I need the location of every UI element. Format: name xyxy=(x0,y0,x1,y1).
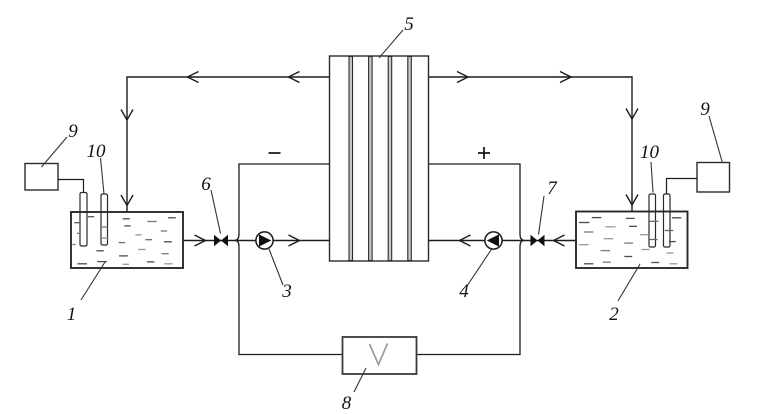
label 10 right xyxy=(640,142,660,193)
svg-text:2: 2 xyxy=(609,304,619,325)
label 2 xyxy=(609,264,640,325)
electrode pair left 10 xyxy=(80,193,108,247)
svg-text:3: 3 xyxy=(281,281,292,302)
svg-text:7: 7 xyxy=(547,178,558,199)
label 1 xyxy=(67,262,105,325)
meter box 9 right xyxy=(667,163,730,195)
tank 2 xyxy=(576,212,688,269)
tank 1 xyxy=(71,212,183,268)
node minus terminal xyxy=(269,152,281,154)
svg-text:9: 9 xyxy=(68,121,78,142)
svg-text:5: 5 xyxy=(404,14,414,35)
valve 6 xyxy=(201,174,228,246)
svg-text:10: 10 xyxy=(87,141,107,162)
svg-text:4: 4 xyxy=(459,281,469,302)
wire main right pipe xyxy=(429,235,577,246)
svg-text:10: 10 xyxy=(640,142,660,163)
wire main left pipe xyxy=(183,235,330,246)
wire top-left pipe xyxy=(121,72,330,212)
wire electrical circuit right branch xyxy=(417,164,525,355)
svg-text:8: 8 xyxy=(342,393,352,414)
label 9 left xyxy=(42,121,79,167)
svg-text:1: 1 xyxy=(67,304,77,325)
node plus terminal xyxy=(478,147,490,159)
meter box 9 left xyxy=(25,164,84,193)
svg-text:9: 9 xyxy=(700,99,710,120)
wire electrical circuit left branch xyxy=(235,164,343,355)
pump 3 xyxy=(256,232,292,302)
label 9 right xyxy=(700,99,722,163)
wire top-right pipe xyxy=(429,72,639,212)
svg-text:6: 6 xyxy=(201,174,211,195)
label 5 xyxy=(379,14,414,58)
label 10 left xyxy=(87,141,107,194)
membrane stack 5 xyxy=(330,56,429,261)
voltmeter 8 xyxy=(342,337,417,414)
electrode pair right 10 xyxy=(649,194,670,247)
valve 7 xyxy=(531,178,559,246)
pump 4 xyxy=(459,232,502,302)
